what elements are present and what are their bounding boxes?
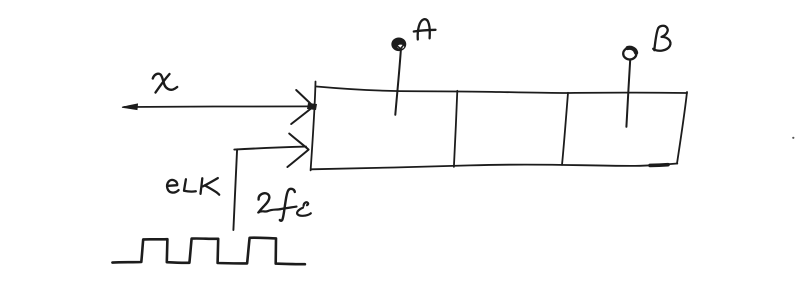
label CLK xyxy=(167,178,219,195)
label 2fs (clock frequency) xyxy=(258,189,311,221)
divider 1 (cell 1 / cell 2) xyxy=(454,91,457,167)
clock waveform (square wave) xyxy=(112,238,305,265)
wire: probe B stem xyxy=(626,60,630,127)
top edge xyxy=(317,87,688,94)
label x (input signal name) xyxy=(153,74,177,93)
right edge xyxy=(677,92,687,164)
speck (scan artifact right side) xyxy=(792,137,794,139)
left edge xyxy=(311,82,316,171)
wire: CLK line (vertical + horizontal into register) xyxy=(233,147,306,230)
bottom-right overshoot stroke xyxy=(650,163,668,167)
shift register U1: box outline xyxy=(311,82,687,171)
label B xyxy=(653,26,670,51)
bottom edge xyxy=(311,164,677,170)
node A: probe bulb xyxy=(392,39,405,51)
label A xyxy=(414,19,436,39)
arrowhead: x input into register xyxy=(291,90,317,124)
node B: probe bulb xyxy=(623,48,636,60)
wire: x input line with left tail arrowhead xyxy=(122,104,313,110)
wire: probe A stem xyxy=(395,51,401,115)
arrowhead: CLK into register xyxy=(287,134,308,168)
divider 2 (cell 2 / cell 3) xyxy=(562,93,568,165)
